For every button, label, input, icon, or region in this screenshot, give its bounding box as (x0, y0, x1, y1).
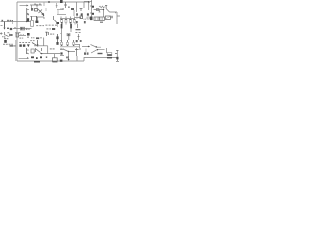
node junction blob on rail (48, 1, 50, 3)
wire transistor chain x61 (61, 28, 63, 40)
resistor R1 top (64, 2, 67, 8)
input stage Q16 (0, 32, 3, 34)
wire vertical x92 (91, 0, 93, 20)
transistor Q26 column (26, 48, 28, 54)
wire out mark (116, 50, 118, 57)
emitter arrow Q30 (68, 56, 70, 59)
transistor Q10 body (92, 13, 94, 15)
transistor Q12 (90, 17, 93, 21)
wire stub x99.5 (99, 10, 101, 13)
transistor Q21 (30, 39, 32, 42)
wire out diag (91, 50, 105, 53)
transistor Q19 (67, 33, 70, 35)
transistor row Q6-Q8 bodies (61, 19, 63, 22)
wire right pin vertical (117, 12, 120, 24)
wire input net y21.5 (1, 21, 32, 23)
resistor box R2 tall (31, 21, 34, 27)
wire inner top feedback line (20, 5, 27, 7)
junction dot y9.5 (103, 9, 104, 10)
wire y44.5 (75, 44, 80, 46)
wire left inner vertical (15, 40, 17, 61)
node dashes above second rail (34, 4, 36, 5)
output row Q23-Q25 (62, 40, 74, 43)
node rail tap blob (44, 2, 57, 8)
node second rail with tap (30, 5, 42, 8)
transistor Q17 (27, 33, 30, 36)
wire y14.5 (57, 14, 66, 16)
wire top sub rail (84, 2, 89, 11)
diode D4 (23, 44, 25, 46)
current source tops x77 x82 x88 (77, 13, 88, 16)
node dashes y32 right (75, 31, 77, 34)
wire x77 group (78, 24, 80, 48)
wire mid-low y45.8 (34, 45, 48, 47)
node input marks (2, 20, 4, 22)
transistor Q1 column (26, 8, 28, 22)
resistor R15 dark bars (10, 45, 14, 47)
resistor R10 (45, 32, 48, 36)
wire x71 (69, 28, 71, 40)
transistor Q22 (57, 40, 59, 43)
output device Q29 (116, 57, 118, 60)
wire x68.5 drop (68, 52, 70, 57)
arrowhead inner bottom (27, 57, 29, 59)
transistor Q2 pair (32, 8, 33, 11)
wire x58 link (46, 8, 58, 15)
wire diagonal to output line (106, 9, 109, 13)
wire bottom rail right (84, 58, 118, 62)
crossover X1 (38, 9, 44, 16)
wire collector bus y9.5 (94, 10, 104, 18)
resistor R4 squiggle y7 (99, 6, 105, 8)
transistor Q13 with down arrow (4, 22, 6, 28)
wire bottom rail left (17, 60, 84, 62)
diode box D2 (80, 16, 83, 19)
arrowhead inner top (27, 5, 29, 7)
node label squiggle (76, 29, 81, 30)
transistor Q9 body (92, 6, 94, 8)
node bracket dashes (19, 41, 21, 44)
wire bus stubs down (62, 23, 75, 25)
wire diag collector (64, 50, 75, 52)
misc upper mid marks (60, 8, 74, 16)
current mirror Q3 Q4 (32, 16, 37, 22)
thick rail segment right (107, 57, 112, 58)
node label dashes mid (36, 24, 38, 27)
wire x112 pair (111, 16, 113, 18)
wire bus risers (61, 17, 75, 19)
wire x106 (106, 48, 108, 53)
junction dot second rail (36, 4, 37, 5)
resistor R8 blob (52, 28, 55, 30)
resistor box R9 (16, 33, 19, 37)
resistor R11 blobs (76, 40, 78, 42)
diode D5 triangle (27, 44, 30, 47)
wire output line y12 (110, 12, 118, 13)
transistor Q5 (54, 16, 58, 23)
resistor box R5 (94, 17, 99, 20)
wire bus partial y46.8 (60, 46, 80, 48)
node row y37.5 with blob (31, 37, 32, 38)
wire y53.6 (40, 54, 60, 58)
node V+ corner block (60, 0, 63, 3)
transistor Q14 (61, 24, 63, 28)
wire y49.5 left (60, 49, 64, 51)
above-rail marks (31, 56, 34, 58)
thick rail segment left (34, 61, 40, 63)
current source T (75, 48, 80, 56)
diode hump on net (14, 27, 16, 28)
wire x47.7 drop (47, 46, 49, 54)
wire y17.5 (75, 17, 81, 19)
wire x77 bottom (76, 56, 78, 61)
wire vertical x76 (76, 2, 78, 12)
component cluster on lower net (20, 27, 24, 30)
wire y46.5 (82, 46, 90, 48)
emitter blob on rail (60, 60, 63, 62)
diode D3 (19, 44, 21, 46)
resistor box R7 (105, 16, 110, 19)
transistor Q27 cluster (36, 48, 42, 53)
wire lower input net y28.5 (13, 28, 32, 30)
wire switch diagonal (91, 45, 102, 48)
capacitor C2 top plate (105, 6, 107, 9)
node offset marks (7, 28, 9, 29)
transistor Q28 (60, 52, 62, 54)
node OUT label bar (98, 53, 103, 54)
diode box D1 (35, 9, 38, 12)
wire y55.6 (60, 55, 64, 57)
wire y35.5 (19, 35, 26, 37)
wire y9.5 short (57, 9, 63, 11)
node dashes y48.5 (50, 48, 52, 49)
wire left frame vertical (16, 2, 18, 61)
resistor box R16 (31, 49, 34, 53)
wire mirror bus y17 (36, 17, 44, 22)
transistor Q20 (4, 40, 7, 43)
resistor box R6 (99, 17, 104, 20)
diode D6 blobs (84, 52, 86, 54)
transistor Q18 (57, 34, 59, 40)
transistor Q15 (70, 24, 72, 28)
wire inner bottom feedback line (19, 58, 28, 60)
wire mid bus y18.5 (60, 18, 75, 20)
wire top rail (17, 1, 89, 3)
resistor R14 box (107, 53, 112, 56)
component box on rail (52, 58, 57, 62)
tick x90 top (90, 1, 92, 3)
wire x43.5 tap (43, 13, 45, 16)
component on bus y9.5 (96, 9, 99, 11)
